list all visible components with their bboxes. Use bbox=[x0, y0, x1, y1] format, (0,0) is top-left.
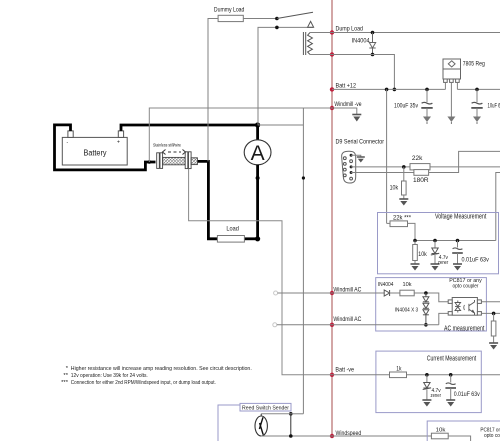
pin DB9 p3 bbox=[350, 165, 353, 168]
node current zener tap bbox=[425, 373, 429, 377]
shunt left clamp bbox=[157, 153, 163, 169]
node cap C1 tap bbox=[425, 88, 429, 92]
wire reed junction to x303 bbox=[291, 413, 304, 415]
capacitor C-0.01uF lead bbox=[457, 241, 459, 248]
pin DB9 p2 bbox=[350, 160, 353, 163]
node pulldown tap ac bbox=[492, 312, 496, 316]
pin opto 4 bbox=[477, 300, 481, 304]
svg-text:7805 Reg: 7805 Reg bbox=[463, 61, 485, 68]
zener D-4.7v-current lead bbox=[426, 375, 428, 382]
box Voltage Measurement bbox=[378, 213, 499, 274]
svg-text:Batt +12: Batt +12 bbox=[336, 82, 357, 89]
BATTERY-CIRCUIT bbox=[55, 108, 333, 375]
ground 7805 bbox=[447, 117, 455, 123]
svg-text:0.01uF 63v: 0.01uF 63v bbox=[462, 258, 489, 264]
svg-text:100uF 35v: 100uF 35v bbox=[394, 103, 419, 110]
node load right junction bbox=[255, 236, 260, 241]
diode chain IN4004 x3 bbox=[423, 293, 429, 325]
resistor R-10k-divider bbox=[413, 245, 418, 261]
svg-text:Battery: Battery bbox=[84, 149, 107, 158]
wire 22k left lead bbox=[387, 222, 390, 224]
ground zener divider bbox=[431, 264, 440, 271]
svg-text:Stainless still/wire: Stainless still/wire bbox=[153, 142, 182, 147]
TOP-SECTION bbox=[208, 6, 500, 414]
node Windmill AC 2 bbox=[330, 323, 334, 327]
node diode bottom bbox=[371, 53, 375, 57]
node voltage-sense tap bbox=[385, 88, 389, 92]
wire ammeter bottom lead (thick) bbox=[256, 165, 259, 239]
svg-text:+: + bbox=[117, 140, 120, 146]
wire divider node rail bbox=[415, 240, 496, 242]
wire rpm resistor to edge bbox=[448, 436, 470, 441]
node Batt +12 bbox=[330, 87, 334, 91]
svg-text:12v operation: Use 39k for 24: 12v operation: Use 39k for 24 volts. bbox=[71, 373, 148, 379]
capacitor C1 100uF 35v bbox=[426, 89, 428, 102]
pin DB9 p8 bbox=[343, 168, 346, 171]
pin DB9 p6 bbox=[343, 157, 346, 160]
wire shunt right sense down to Batt -ve line bbox=[189, 169, 332, 375]
node at batt rail x394 bbox=[393, 88, 397, 92]
diode D2 IN4004 series bbox=[384, 290, 389, 296]
svg-text:D9 Serial Connector: D9 Serial Connector bbox=[336, 139, 385, 146]
battery terminal - bbox=[68, 131, 73, 138]
pin 7805 input bbox=[444, 79, 448, 82]
node relay-coil-bottom bbox=[330, 52, 334, 56]
box Current Measurement bbox=[376, 351, 481, 413]
wire ac pulldown lead bbox=[493, 313, 495, 321]
pin opto 3 bbox=[477, 312, 481, 316]
svg-text:22k: 22k bbox=[412, 155, 423, 162]
resistor R-22k bbox=[410, 164, 430, 170]
wire long vertical x303 bbox=[302, 108, 304, 414]
svg-text:Higher resistance will increas: Higher resistance will increase amp read… bbox=[71, 366, 252, 372]
svg-text:10uF 6: 10uF 6 bbox=[488, 103, 500, 110]
wire 7805 input lead bbox=[444, 82, 446, 89]
zener D-4.7v lead bbox=[434, 241, 436, 248]
ground 10k bbox=[399, 199, 408, 206]
wire opto output bottom bbox=[481, 312, 500, 314]
wire DB9 p3 to 22k bbox=[351, 166, 410, 168]
terminal windmill AC 1 bbox=[274, 291, 278, 295]
resistor R-180R bbox=[414, 170, 429, 176]
svg-text:Current Measurement: Current Measurement bbox=[427, 355, 476, 362]
svg-text:Load: Load bbox=[226, 225, 239, 232]
wire dump load line right of bus bbox=[332, 32, 500, 34]
wire 10k to ground bbox=[403, 195, 405, 199]
wire 22k to right edge bbox=[430, 166, 500, 168]
ground C1 bbox=[423, 117, 431, 123]
svg-text:IN4004: IN4004 bbox=[378, 282, 394, 288]
svg-text:180R: 180R bbox=[413, 177, 429, 184]
wire 10k pulldown lead bbox=[403, 167, 405, 181]
wire windspeed rail bbox=[261, 435, 431, 437]
node current cap tap bbox=[449, 373, 453, 377]
node diode top bbox=[371, 31, 375, 35]
svg-text:Dummy Load: Dummy Load bbox=[214, 6, 245, 13]
svg-text:zener: zener bbox=[438, 260, 449, 266]
node Windspeed bbox=[330, 434, 334, 438]
wire DB9 p4 to 180R bbox=[351, 172, 414, 174]
pin 7805 gnd bbox=[450, 79, 454, 82]
svg-text:1k: 1k bbox=[396, 366, 402, 373]
resistor R-10k pulldown bbox=[402, 181, 407, 195]
svg-text:IN4004: IN4004 bbox=[352, 38, 371, 44]
node shunt left sense bbox=[148, 160, 152, 164]
pin opto 1 bbox=[448, 300, 452, 304]
wire zener current to ground bbox=[426, 390, 428, 400]
box reed switch outer bbox=[218, 405, 240, 441]
wire relay coil top lead to bus bbox=[310, 32, 332, 34]
node Windmill AC 1 bbox=[330, 291, 334, 295]
wire switch lower contact line bbox=[258, 27, 313, 125]
box reed switch title bbox=[240, 403, 291, 411]
node reed bottom junction bbox=[289, 434, 293, 438]
wire ammeter top lead (thick) bbox=[256, 125, 259, 140]
connector J1 DB9 outline bbox=[342, 151, 356, 183]
relay coil core bbox=[302, 32, 304, 55]
box RPM measurement bbox=[427, 421, 500, 441]
ammeter A bbox=[244, 140, 271, 165]
switch SW1 blade bbox=[277, 12, 313, 18]
regulator U1 7805 body bbox=[443, 59, 461, 79]
svg-text:Windmill -ve: Windmill -ve bbox=[334, 101, 361, 108]
node probe on x303 bbox=[302, 176, 305, 179]
wire ac pulldown to ground bbox=[493, 336, 495, 343]
wire diode to 10k bbox=[390, 292, 400, 294]
battery B1 bbox=[62, 137, 127, 165]
pin opto 2 bbox=[448, 312, 452, 316]
ground cap divider bbox=[453, 264, 462, 271]
node ammeter top junction bbox=[255, 122, 260, 127]
wire shunt left sense up to Windmill -ve line bbox=[149, 108, 332, 162]
wire 1k to right edge bbox=[407, 374, 500, 376]
svg-text:**: ** bbox=[63, 373, 68, 379]
wire 5v rail bbox=[457, 88, 500, 90]
pin DB9 p5 bbox=[350, 177, 353, 180]
ground 10k divider bbox=[411, 264, 420, 271]
svg-text:Windmill AC: Windmill AC bbox=[333, 286, 361, 293]
wire bottom line up to opto lower pin bbox=[439, 313, 448, 324]
wire relay coil bottom lead to bus bbox=[310, 54, 332, 56]
wire 7805 gnd lead bbox=[450, 82, 452, 116]
ground zener current bbox=[422, 400, 431, 407]
wire reed top lead bbox=[261, 413, 291, 415]
resistor R-10k-ac bbox=[400, 290, 414, 296]
wire battery negative to shunt (thick) bbox=[55, 125, 156, 170]
wire batt+12 down to voltage box bbox=[386, 89, 388, 223]
node Windmill -ve bbox=[330, 106, 334, 110]
svg-text:AC measurement: AC measurement bbox=[444, 325, 484, 332]
wire zener to ground bbox=[434, 255, 436, 264]
svg-text:10k: 10k bbox=[390, 184, 399, 191]
svg-text:A: A bbox=[251, 142, 265, 165]
shunt right clamp bbox=[185, 152, 191, 169]
wire windmill AC line 2 bbox=[277, 324, 439, 326]
wire windmill -ve ground stub bbox=[332, 108, 357, 114]
wire dummy load left lead down to shunt node bbox=[208, 19, 218, 162]
capacitor C2 10uF bbox=[476, 89, 478, 102]
wire main red bus bbox=[331, 0, 333, 436]
node reed top junction bbox=[289, 412, 293, 416]
wire reed junction down to rail bbox=[290, 414, 292, 436]
svg-text:10k: 10k bbox=[418, 251, 427, 258]
pin DB9 p9 bbox=[343, 174, 346, 177]
MAIN-BUS bbox=[330, 0, 363, 438]
resistor Load bbox=[217, 236, 244, 243]
ground C2 bbox=[473, 117, 481, 123]
capacitor C-0.01uF bbox=[453, 248, 463, 250]
svg-text:10k: 10k bbox=[436, 427, 446, 433]
svg-text:Reed Switch Sender: Reed Switch Sender bbox=[242, 406, 289, 412]
wire DB9 gnd stub bbox=[351, 155, 361, 156]
wire opto output top bbox=[481, 301, 500, 303]
node cap C2 tap bbox=[475, 88, 479, 92]
opto internal LED pair bbox=[455, 301, 461, 313]
svg-text:Connection for either 2nd RPM/: Connection for either 2nd RPM/Windspeed … bbox=[71, 380, 216, 386]
wire thin from ammeter node to vertical x303 bbox=[258, 124, 304, 126]
wire load to ammeter (thick) bbox=[244, 237, 257, 240]
resistor dummy load bbox=[218, 15, 243, 21]
reed switch RS1 bbox=[255, 416, 267, 436]
wire 10k to ground bbox=[414, 261, 416, 264]
BOTTOM-SECTION bbox=[218, 403, 500, 441]
svg-text:opto co: opto co bbox=[484, 433, 500, 439]
relay coil winding bbox=[308, 33, 313, 55]
wire dummy load right lead to switch bbox=[243, 18, 277, 20]
VOLTAGE-BOX bbox=[378, 213, 499, 274]
shunt bolt bbox=[191, 158, 197, 165]
svg-text:Voltage Measurement: Voltage Measurement bbox=[435, 214, 486, 221]
svg-text:Dump Load: Dump Load bbox=[336, 25, 364, 32]
svg-text:***: *** bbox=[61, 380, 69, 386]
CURRENT-BOX bbox=[332, 351, 500, 413]
pin DB9 p4 bbox=[350, 171, 353, 174]
resistor R-1k bbox=[390, 372, 407, 378]
wire 22k right lead to node bbox=[408, 223, 416, 240]
terminal windmill AC 2 bbox=[273, 323, 277, 327]
wire shunt right to load (thick) bbox=[198, 161, 218, 238]
svg-text:opto coupler: opto coupler bbox=[453, 284, 479, 290]
switch SW1 common node bbox=[275, 17, 279, 21]
DB9-SECTION bbox=[336, 139, 500, 241]
ground windmill -ve bbox=[352, 115, 361, 122]
wire right edge stub down to voltage node bbox=[496, 173, 500, 241]
battery terminal + bbox=[118, 131, 123, 138]
box AC measurement bbox=[376, 278, 487, 331]
svg-text:IN4004 X 3: IN4004 X 3 bbox=[395, 307, 418, 313]
wire batt -ve line into box bbox=[332, 374, 390, 376]
pin DB9 p7 bbox=[343, 163, 346, 166]
node Dump Load bbox=[330, 30, 334, 34]
zener diode 4.7v bbox=[431, 248, 439, 255]
relay actuator arrow bbox=[308, 21, 314, 27]
capacitor C-0.01uF-current lead bbox=[450, 375, 452, 383]
svg-text:0.01uF 63v: 0.01uF 63v bbox=[454, 392, 480, 398]
resistor R-ac-pulldown bbox=[491, 321, 496, 336]
ground cap current bbox=[446, 400, 455, 407]
node divider-cap bbox=[456, 239, 460, 243]
svg-text:Windmill AC: Windmill AC bbox=[333, 316, 361, 323]
ground ac pulldown bbox=[489, 343, 498, 350]
node switch lower contact bbox=[275, 26, 279, 30]
wire reed bottom lead bbox=[260, 435, 262, 438]
node divider-zener bbox=[433, 239, 437, 243]
resistor R-22k-divider bbox=[390, 221, 408, 227]
ground DB9 bbox=[357, 157, 365, 163]
pin 7805 output bbox=[456, 79, 460, 82]
wire 180R up-over to right edge bbox=[429, 151, 500, 172]
wire 7805 output lead bbox=[456, 82, 458, 89]
wire battery positive to ammeter top (thick) bbox=[121, 125, 258, 131]
wire Batt +12 rail bbox=[332, 88, 445, 90]
resistor R-10k-rpm bbox=[431, 433, 448, 439]
FOOTNOTES bbox=[61, 366, 252, 386]
opto U2 body bbox=[452, 298, 477, 316]
wire windmill AC line 1 bbox=[278, 292, 384, 294]
wire coil-bottom line to batt+12 bbox=[332, 55, 394, 90]
shunt resistance wire coil bbox=[163, 157, 186, 164]
zener diode 4.7v current bbox=[423, 383, 431, 390]
shunt adjust arrow bbox=[163, 150, 186, 155]
pin DB9 p1 (gnd) bbox=[350, 154, 353, 157]
node ammeter bottom probe bbox=[256, 176, 260, 180]
capacitor C-0.01uF current bbox=[446, 383, 456, 385]
node divider-10k bbox=[413, 239, 417, 243]
node 10k pulldown tap bbox=[402, 165, 406, 169]
svg-text:10k: 10k bbox=[403, 282, 412, 288]
svg-text:Batt -ve: Batt -ve bbox=[335, 366, 354, 373]
diode D1 IN4004 bbox=[372, 33, 374, 43]
node diode chain top bbox=[424, 291, 428, 295]
wire 10k lower lead bbox=[414, 241, 416, 245]
node diode chain bottom bbox=[424, 323, 428, 327]
opto internal phototransistor bbox=[464, 300, 475, 315]
svg-text:zener: zener bbox=[431, 393, 442, 399]
wire 10k to opto top bbox=[414, 293, 448, 302]
AC-BOX bbox=[273, 278, 500, 350]
node Batt -ve bbox=[330, 373, 334, 377]
